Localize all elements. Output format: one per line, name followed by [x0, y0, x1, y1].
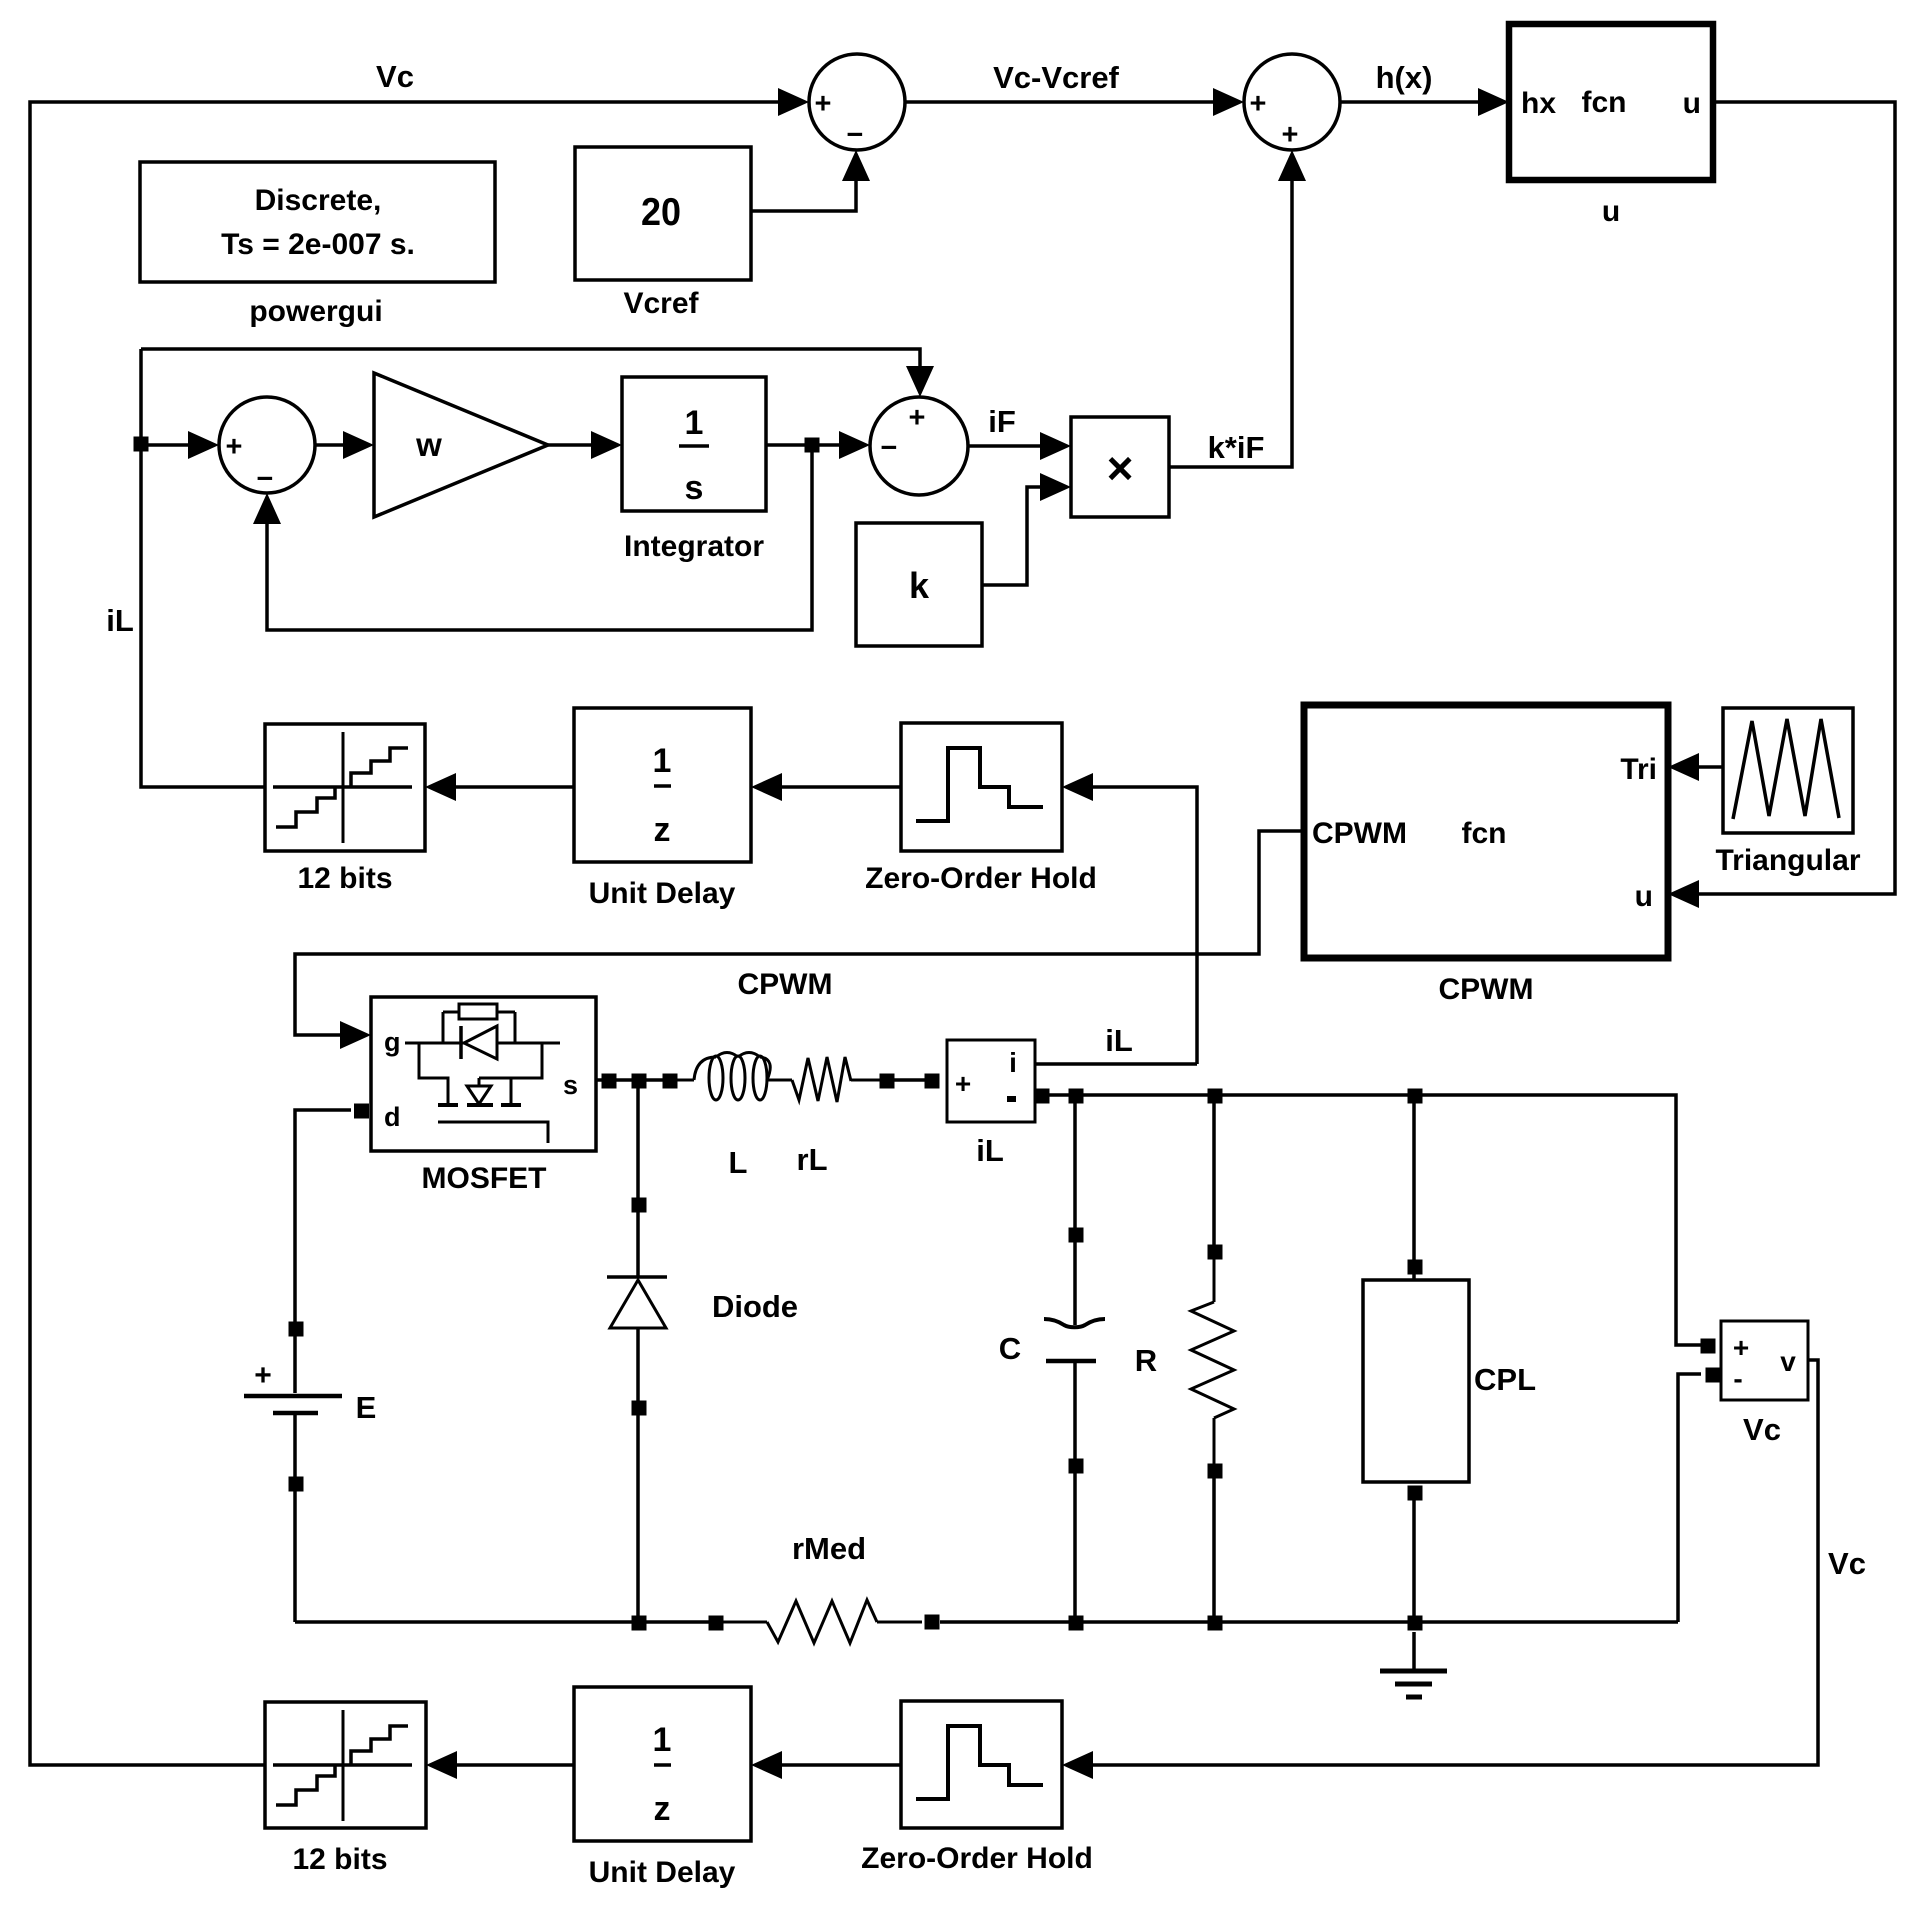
svg-text:s: s	[563, 1070, 578, 1100]
svg-text:z: z	[654, 1790, 671, 1828]
node junction ground	[1408, 1616, 1423, 1631]
svg-text:20: 20	[641, 191, 681, 234]
svg-text:CPWM: CPWM	[1312, 817, 1407, 850]
svg-text:Unit Delay: Unit Delay	[589, 1856, 736, 1889]
svg-text:u: u	[1635, 880, 1653, 913]
svg-text:k: k	[909, 565, 930, 606]
svg-text:z: z	[654, 811, 671, 849]
svg-text:1: 1	[685, 404, 704, 442]
svg-text:g: g	[384, 1027, 401, 1057]
wire Vcref to Sum1 bottom	[751, 150, 870, 211]
svg-text:u: u	[1602, 195, 1620, 228]
powergui	[140, 162, 495, 328]
wire Integrator output to Sum4 with junction	[766, 431, 870, 459]
svg-text:E: E	[356, 1390, 377, 1425]
svg-text:Vcref: Vcref	[623, 287, 699, 320]
wire Sum2 to block u	[1340, 88, 1509, 116]
battery E (DC source)	[244, 1322, 376, 1623]
inductor L with resistor rL (series branch)	[663, 1053, 895, 1181]
svg-text:hx: hx	[1521, 87, 1556, 120]
svg-text:Integrator: Integrator	[624, 530, 764, 563]
wire bottom bus (E- to rMed to loads)	[295, 1616, 767, 1631]
wire u output to CPWM u input	[1668, 102, 1895, 908]
svg-text:k*iF: k*iF	[1208, 430, 1265, 465]
node MOSFET s port	[596, 1074, 663, 1089]
svg-text:CPWM: CPWM	[738, 968, 833, 1001]
fcn block CPWM	[1304, 705, 1668, 1006]
svg-text:w: w	[415, 426, 442, 463]
wire Vc v-output down to bottom row	[1062, 1360, 1818, 1779]
svg-text:Vc: Vc	[1828, 1546, 1866, 1581]
svg-text:R: R	[1135, 1343, 1157, 1378]
unit delay 1/z (top)	[574, 708, 751, 910]
current measurement iL	[947, 1040, 1035, 1168]
sum block Sum3 (iL - integrator feedback)	[219, 397, 315, 495]
wire Sum3 to gain w	[315, 431, 374, 459]
sum block Sum2 (Vc-Vcref + k*iF)	[1244, 54, 1340, 151]
wire k*iF to Sum2 bottom	[1169, 150, 1306, 467]
node junction at s (to diode)	[632, 1074, 647, 1089]
svg-text:Ts = 2e-007 s.: Ts = 2e-007 s.	[221, 228, 415, 261]
svg-text:powergui: powergui	[249, 295, 382, 328]
constant Vcref = 20	[575, 147, 751, 320]
svg-text:12 bits: 12 bits	[292, 1843, 387, 1876]
wire Unit Delay to 12 bits (bottom)	[426, 1751, 574, 1779]
svg-text:+: +	[254, 1359, 272, 1392]
svg-text:v: v	[1780, 1346, 1796, 1377]
gain w (triangle)	[374, 373, 548, 517]
constant k	[856, 523, 982, 646]
unit delay 1/z (bottom)	[574, 1687, 751, 1889]
svg-text:Unit Delay: Unit Delay	[589, 877, 736, 910]
wire Triangular to CPWM Tri input	[1668, 753, 1723, 781]
svg-text:Tri: Tri	[1620, 753, 1657, 786]
svg-text:C: C	[999, 1331, 1021, 1366]
svg-text:i: i	[1009, 1047, 1017, 1078]
svg-text:fcn: fcn	[1582, 86, 1627, 119]
capacitor C	[999, 1095, 1105, 1622]
wire Unit Delay to 12 bits	[425, 773, 574, 801]
node junction CPL branch	[1408, 1089, 1423, 1104]
svg-text:h(x): h(x)	[1376, 60, 1433, 95]
svg-text:Zero-Order Hold: Zero-Order Hold	[865, 862, 1097, 895]
svg-text:iL: iL	[976, 1133, 1004, 1168]
wire loop top: iL into Sum4 top	[141, 349, 934, 397]
svg-text:CPL: CPL	[1474, 1362, 1536, 1397]
wire gain to Integrator	[548, 431, 622, 459]
svg-text:-: -	[1733, 1363, 1742, 1394]
svg-text:L: L	[729, 1145, 748, 1180]
quantizer 12 bits (top)	[265, 724, 425, 895]
svg-text:Vc-Vcref: Vc-Vcref	[993, 60, 1119, 95]
node junction C bottom	[1069, 1616, 1084, 1631]
svg-text:−: −	[881, 432, 898, 464]
svg-text:MOSFET: MOSFET	[422, 1162, 547, 1195]
node junction C branch	[1069, 1089, 1084, 1104]
svg-text:+: +	[1733, 1332, 1749, 1363]
svg-text:d: d	[384, 1102, 401, 1132]
svg-text:s: s	[685, 469, 704, 507]
wire iL vertical (12 bits output up to PI loop)	[134, 349, 266, 787]
zero-order hold (bottom)	[861, 1701, 1093, 1875]
svg-text:+: +	[815, 88, 832, 120]
svg-text:12 bits: 12 bits	[297, 862, 392, 895]
svg-text:−: −	[257, 463, 274, 495]
svg-text:CPWM: CPWM	[1439, 973, 1534, 1006]
svg-text:iL: iL	[106, 603, 134, 638]
wire iF to product	[968, 432, 1071, 460]
svg-text:+: +	[909, 402, 926, 434]
wire Vc feedback: bottom 12-bits output up left edge and along top into Sum1	[30, 88, 809, 1765]
source Triangular	[1715, 708, 1860, 877]
wire iL i-output to vertical riser	[1035, 1062, 1197, 1066]
svg-text:×: ×	[1107, 442, 1134, 494]
svg-text:fcn: fcn	[1462, 817, 1507, 850]
zero-order hold (top)	[865, 723, 1097, 895]
fcn block u (hx -> u)	[1509, 24, 1713, 228]
wire ZOH to Unit Delay (bottom)	[751, 1751, 901, 1779]
integrator block 1/s	[622, 377, 766, 563]
transistor MOSFET block	[371, 997, 596, 1195]
node junction R bottom	[1208, 1616, 1223, 1631]
svg-text:Vc: Vc	[1743, 1412, 1781, 1447]
voltage measurement Vc	[1721, 1321, 1808, 1447]
sum block Sum4 (iL - integ = iF)	[870, 397, 968, 495]
wire rL to iL measurement	[890, 1074, 940, 1089]
wire CPWM output to MOSFET gate	[295, 831, 1304, 1049]
wire E+ to MOSFET d with port	[295, 1104, 369, 1323]
wire k to product	[982, 473, 1071, 585]
wire iL into Sum3	[141, 431, 219, 459]
svg-text:+: +	[226, 431, 243, 463]
node junction R branch	[1208, 1089, 1223, 1104]
ground	[1380, 1632, 1447, 1697]
product block (x)	[1071, 417, 1169, 517]
wire Sum1 to Sum2	[905, 88, 1244, 116]
quantizer 12 bits (bottom)	[265, 1702, 426, 1876]
svg-text:u: u	[1683, 87, 1701, 120]
svg-text:Discrete,: Discrete,	[255, 184, 382, 217]
diode Diode	[607, 1087, 798, 1622]
svg-text:1: 1	[653, 742, 672, 780]
resistor rMed	[767, 1531, 1678, 1643]
svg-text:+: +	[1250, 88, 1267, 120]
wire Vc- to bottom bus	[1678, 1368, 1721, 1623]
load CPL	[1363, 1095, 1536, 1622]
svg-text:−: −	[847, 119, 864, 151]
sum block Sum1 (Vc - Vcref)	[809, 54, 905, 151]
svg-text:+: +	[955, 1068, 971, 1099]
wire iL measurement to Zero-Order Hold	[1062, 773, 1197, 1064]
svg-text:rL: rL	[797, 1142, 828, 1177]
svg-text:Zero-Order Hold: Zero-Order Hold	[861, 1842, 1093, 1875]
wire output bus to Vc+	[1035, 1089, 1716, 1354]
svg-text:Triangular: Triangular	[1715, 844, 1860, 877]
wire integrator feedback to Sum3 bottom	[253, 445, 812, 630]
svg-text:Vc: Vc	[376, 59, 414, 94]
wire Zero-Order Hold to Unit Delay	[751, 773, 901, 801]
svg-text:Diode: Diode	[712, 1289, 798, 1324]
svg-text:iL: iL	[1105, 1023, 1133, 1058]
svg-text:iF: iF	[988, 404, 1016, 439]
svg-text:+: +	[1282, 119, 1299, 151]
svg-text:1: 1	[653, 1721, 672, 1759]
resistor R	[1135, 1095, 1234, 1622]
svg-text:rMed: rMed	[792, 1531, 866, 1566]
